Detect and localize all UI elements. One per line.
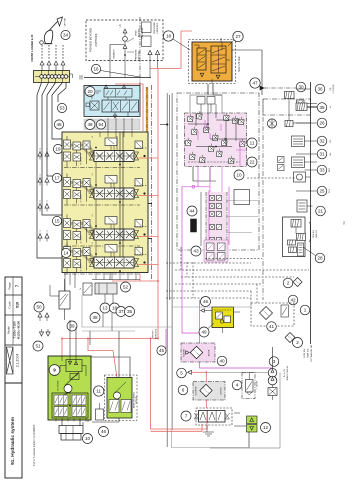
svg-text:53: 53 — [59, 106, 65, 111]
balloon 37 — [116, 307, 126, 317]
coupler block side tick — [70, 74, 73, 78]
grey spacer band — [84, 119, 140, 130]
aux couplers below — [38, 313, 42, 317]
drain stack B — [292, 157, 318, 170]
svg-text:2.1.2004: 2.1.2004 — [16, 354, 20, 367]
trailer brake valve block (blue) — [84, 86, 140, 117]
section 1 pilot box — [105, 138, 117, 151]
section 2 compensator valves — [64, 178, 91, 199]
balloon 3 — [269, 357, 279, 367]
center-dashed trunk line — [150, 85, 152, 281]
svg-text:6: 6 — [182, 388, 185, 393]
balloon 54 — [96, 120, 105, 129]
svg-text:(OPTION): (OPTION) — [94, 33, 98, 46]
verticals into loader valve — [69, 320, 71, 356]
priority valve block (orange) — [192, 42, 232, 81]
outlet box below pink — [193, 167, 216, 181]
svg-text:48: 48 — [56, 122, 62, 127]
coupler pair 2 — [47, 75, 51, 79]
balloon 45 — [157, 346, 166, 355]
svg-text:OPTION: OPTION — [136, 396, 138, 404]
balloon 48 — [54, 120, 63, 129]
svg-text:RET: RET — [329, 167, 331, 172]
svg-text:21: 21 — [318, 209, 324, 214]
dashed link to gallery — [247, 177, 296, 179]
svg-text:4: 4 — [236, 383, 239, 388]
svg-text:3F OKS/N: 3F OKS/N — [81, 263, 83, 272]
svg-text:NOK 45L: NOK 45L — [304, 348, 306, 358]
balloon 53 — [57, 103, 66, 112]
svg-text:5: 5 — [180, 371, 183, 376]
svg-text:46: 46 — [203, 299, 209, 304]
svg-text:From T–series tractor no N1820: From T–series tractor no N18207. — [32, 424, 36, 466]
svg-text:52: 52 — [123, 285, 129, 290]
section 3 compensator valves — [64, 219, 91, 240]
green block top ports — [60, 356, 86, 380]
svg-text:17: 17 — [54, 176, 60, 181]
svg-text:FRONT: FRONT — [153, 330, 155, 338]
gallery row links — [297, 88, 311, 90]
section 2 pilot box — [105, 176, 117, 189]
svg-text:41: 41 — [269, 324, 275, 329]
balloon 35b — [125, 307, 135, 317]
balloon 6 — [178, 385, 188, 395]
svg-text:FREE RET.: FREE RET. — [157, 22, 159, 33]
level gauge — [297, 200, 313, 212]
front loader valve block (green) — [48, 356, 91, 420]
loader tank — [59, 426, 83, 434]
cooler core — [296, 103, 307, 111]
pilot lines from lever to couplers — [41, 45, 43, 60]
svg-text:M120c–M150: M120c–M150 — [17, 321, 21, 340]
svg-text:3: 3 — [273, 359, 276, 364]
balloon 10 — [234, 170, 244, 180]
orange block internals — [194, 38, 230, 84]
svg-text:2: 2 — [296, 340, 299, 345]
main return filter group — [251, 303, 294, 326]
return manifold box — [283, 217, 306, 257]
balloon 52 — [121, 282, 131, 292]
component cluster mid-right — [278, 157, 285, 171]
svg-text:COOLER: COOLER — [333, 84, 335, 93]
coupler pair 4 — [61, 75, 65, 79]
drain stack A — [292, 136, 318, 147]
red line to priority valve — [150, 31, 192, 69]
manifold drain stack — [298, 243, 304, 256]
svg-text:47: 47 — [252, 81, 258, 86]
svg-text:16: 16 — [93, 67, 99, 72]
svg-text:Code: Code — [8, 301, 12, 309]
svg-text:20: 20 — [87, 89, 93, 94]
balloon 33 — [317, 165, 327, 175]
red drop to steering — [62, 339, 66, 388]
balloon 26 — [317, 118, 327, 128]
balloon 11 — [247, 138, 257, 148]
pressure line highlight (orange band) — [146, 87, 148, 273]
svg-text:38: 38 — [92, 315, 98, 320]
title cell date + registered symbol — [7, 347, 14, 374]
rear steer internals — [114, 392, 121, 399]
pink block piping — [188, 104, 247, 167]
section 2 solenoid — [135, 179, 146, 195]
balloon 2 — [283, 278, 293, 288]
balloon 48b — [85, 120, 95, 130]
brakes takeoff box — [110, 45, 124, 63]
tank wall vertical — [310, 82, 312, 344]
balloon 46b — [99, 427, 109, 437]
svg-text:44: 44 — [189, 209, 195, 214]
breather — [293, 278, 302, 287]
red bottom bus — [62, 338, 158, 340]
svg-text:42: 42 — [290, 298, 296, 303]
svg-text:PRESSURE: PRESSURE — [154, 22, 156, 34]
svg-text:2: 2 — [287, 281, 290, 286]
svg-text:49: 49 — [201, 330, 207, 335]
tank bracket — [310, 222, 311, 242]
svg-text:43: 43 — [193, 249, 199, 254]
svg-text:37: 37 — [118, 309, 124, 314]
balloon 43 — [191, 246, 201, 256]
aux valve section 1 spool — [70, 145, 139, 162]
links green blocks — [91, 357, 130, 378]
svg-text:54: 54 — [98, 122, 104, 127]
section 2 LS tap (red) — [139, 195, 159, 197]
loader spools — [52, 393, 88, 418]
pressure reducer valve — [242, 373, 255, 399]
svg-text:91. Hydraulic system: 91. Hydraulic system — [10, 417, 16, 465]
svg-text:46: 46 — [101, 429, 107, 434]
yellow block bottom ticks — [92, 273, 140, 280]
balloon 50 — [34, 302, 44, 312]
svg-text:25: 25 — [319, 189, 325, 194]
mid connector block — [95, 283, 117, 294]
section 3 solenoid — [135, 220, 146, 236]
balloon 51 — [33, 341, 43, 351]
svg-text:BIOS/B: BIOS/B — [209, 349, 211, 356]
balloon 4 — [232, 380, 242, 390]
svg-text:45: 45 — [159, 348, 165, 353]
balloon 7 — [181, 411, 191, 421]
svg-text:BRAKES: BRAKES — [113, 49, 116, 58]
power beyond inlet column — [139, 17, 141, 92]
svg-text:Page: Page — [8, 282, 12, 289]
red pilot line to trailer brake valve — [115, 84, 143, 131]
main aux valve block (yellow) — [62, 132, 148, 273]
svg-text:3F OKS/N: 3F OKS/N — [81, 194, 83, 203]
manifold line above blue block — [84, 77, 151, 79]
leader 49 — [208, 323, 214, 329]
balloon 21 — [316, 206, 326, 216]
aux valve section 3 spool — [70, 224, 139, 241]
svg-text:33: 33 — [319, 168, 325, 173]
balloon 5 — [177, 368, 187, 378]
accumulator — [96, 409, 104, 420]
pink block internals — [185, 111, 245, 164]
suspension column piping — [200, 192, 202, 246]
svg-text:10: 10 — [236, 173, 242, 178]
svg-text:BIOS/N: BIOS/N — [221, 387, 223, 394]
svg-text:POWER BEYOND: POWER BEYOND — [89, 28, 93, 52]
svg-text:DEFLOCK: DEFLOCK — [156, 328, 158, 339]
gallery connectors — [262, 99, 264, 300]
balloon 16 — [91, 64, 100, 73]
balloon 30 — [296, 82, 306, 92]
grey trunk lines — [166, 93, 168, 447]
svg-text:51: 51 — [35, 344, 41, 349]
column magenta lines — [208, 190, 210, 245]
grey link lines — [82, 326, 172, 328]
balloon 10b — [83, 434, 93, 444]
svg-text:Dr. S. 50/: Dr. S. 50/ — [284, 368, 286, 377]
balloon 40 — [217, 356, 227, 366]
svg-text:910: 910 — [16, 302, 20, 308]
power beyond dashed enclosure — [86, 20, 163, 61]
balloon 2b — [293, 338, 303, 348]
svg-text:35: 35 — [127, 309, 133, 314]
section 4 LS tap (red) — [139, 264, 159, 266]
quick coupler block — [34, 71, 70, 83]
blue block left fittings — [86, 91, 101, 107]
cooler solenoid — [285, 92, 295, 99]
svg-text:MAK 50L: MAK 50L — [307, 348, 310, 358]
svg-text:27: 27 — [235, 34, 241, 39]
balloon 13 — [100, 303, 110, 313]
svg-text:MAX 175 l/min: MAX 175 l/min — [238, 56, 241, 72]
section 4 pilot box — [105, 245, 117, 258]
red drop to trailer valve — [151, 339, 208, 430]
svg-text:FRONT LOADER & 3F: FRONT LOADER & 3F — [30, 34, 34, 61]
balloon 47 — [250, 78, 260, 88]
block top ticks — [99, 132, 101, 137]
section 2 internal piping — [64, 174, 147, 206]
section 1 compensator valves — [64, 140, 91, 161]
section 1 internal piping — [64, 136, 147, 168]
balloon 14 — [61, 248, 70, 257]
suspension valves — [210, 196, 222, 243]
svg-text:35: 35 — [319, 105, 325, 110]
balloon 18 — [163, 31, 173, 41]
vertical feed lines inside yellow block — [119, 132, 121, 257]
rear steering valve (green) — [107, 378, 132, 419]
svg-text:10: 10 — [85, 436, 91, 441]
balloon 15 — [52, 216, 61, 225]
svg-text:MAK 50L: MAK 50L — [315, 230, 318, 238]
section 1 solenoid — [135, 141, 146, 157]
svg-text:36: 36 — [317, 87, 323, 92]
suction filter (grey) — [193, 382, 225, 401]
balloon 18b — [110, 303, 120, 313]
suspension pilot block (pink, bottom) — [204, 240, 228, 262]
trunk junction dots — [157, 280, 159, 282]
svg-text:Model: Model — [7, 326, 11, 334]
lines from priority valve down — [207, 84, 209, 95]
section 4 compensator valves — [64, 247, 91, 268]
dash-dot enclosure around steering group — [177, 93, 259, 250]
svg-text:EXTRA NOK 68L: EXTRA NOK 68L — [310, 344, 313, 362]
brake couplers (green) — [247, 416, 258, 424]
dashed pilot bus — [205, 258, 262, 260]
section 4 solenoid — [135, 248, 146, 264]
top link lines — [232, 49, 262, 51]
aux valve section 4 spool — [70, 252, 139, 269]
balloon 12 — [261, 423, 271, 433]
left margin coupler pairs — [38, 152, 42, 156]
valve 7 drain — [206, 425, 208, 432]
balloon 27 — [233, 31, 243, 41]
steering priority block (pink) — [185, 113, 247, 167]
section 3 internal piping — [64, 215, 147, 247]
balloon 49 — [199, 327, 209, 337]
pump shaft coupling — [268, 388, 277, 396]
links from yellow block to lower groups — [64, 273, 66, 292]
svg-text:18: 18 — [166, 34, 172, 39]
balloon 22 — [247, 157, 257, 167]
svg-text:9: 9 — [53, 368, 56, 373]
aux relief valve group — [50, 279, 70, 320]
svg-text:1: 1 — [304, 308, 307, 313]
section 3 pilot box — [105, 217, 117, 230]
balloon 17 — [52, 173, 61, 182]
leader 28 — [303, 247, 316, 256]
suspension valve column (pink strip) — [206, 192, 227, 245]
svg-text:12: 12 — [263, 425, 269, 430]
svg-text:11: 11 — [250, 141, 255, 146]
svg-text:N OKS/B: N OKS/B — [184, 348, 186, 356]
svg-text:Tel: Tel — [342, 221, 346, 225]
svg-text:48: 48 — [87, 122, 93, 127]
svg-text:NOK 45L: NOK 45L — [313, 230, 315, 238]
balloon 28 — [315, 253, 325, 263]
balloon 38 — [90, 313, 100, 323]
magenta suspension lines — [182, 167, 210, 247]
balloon 44 — [187, 206, 197, 216]
gallery symbols — [297, 100, 318, 108]
svg-text:FREE: FREE — [136, 30, 138, 36]
balloon 25 — [317, 186, 327, 196]
svg-text:34: 34 — [63, 33, 69, 38]
balloon 36 — [315, 84, 325, 94]
green block bottom ticks — [55, 418, 57, 422]
svg-text:PRESSURE: PRESSURE — [136, 49, 138, 61]
oil cooler fan — [267, 119, 276, 128]
balloon 19 — [53, 144, 62, 153]
svg-text:7: 7 — [185, 414, 188, 419]
blue block arrows and ports — [104, 85, 107, 88]
magenta accents — [205, 120, 247, 167]
red LS tap lower — [112, 280, 158, 282]
links from yellow valve — [222, 328, 224, 334]
leader line 16 — [101, 71, 141, 78]
svg-text:26: 26 — [319, 121, 325, 126]
svg-text:1 OKS/N: 1 OKS/N — [257, 381, 259, 389]
svg-text:3F OKS/N: 3F OKS/N — [81, 156, 83, 165]
svg-text:11: 11 — [96, 389, 101, 394]
trunk junction ticks — [166, 123, 168, 125]
balloon 1 — [300, 305, 310, 315]
aux valve section 2 spool — [70, 183, 139, 200]
breather filter low — [285, 333, 295, 343]
filler breather — [294, 172, 306, 182]
coupler pair 1 — [40, 75, 44, 79]
title block strip — [5, 277, 22, 478]
steering orbital unit — [190, 95, 222, 114]
front axle filter (pink) — [181, 343, 215, 362]
balloon 31 — [317, 149, 327, 159]
svg-text:OPTION: OPTION — [65, 17, 67, 26]
svg-text:19: 19 — [55, 147, 61, 152]
svg-text:BVA13 15M9 46: BVA13 15M9 46 — [286, 365, 289, 380]
svg-text:3F OKS/N: 3F OKS/N — [81, 235, 83, 244]
balloon 46 — [201, 297, 211, 307]
svg-text:US OKS/B: US OKS/B — [58, 380, 60, 391]
balloon 34 — [61, 30, 70, 39]
svg-text:28: 28 — [317, 256, 323, 261]
svg-text:13: 13 — [102, 306, 108, 311]
control lever (joystick) icon — [44, 30, 52, 44]
svg-text:50: 50 — [36, 305, 42, 310]
svg-text:LS: LS — [119, 24, 122, 27]
brake pilot valve (bright yellow) — [212, 307, 234, 328]
grey link steering bus — [172, 306, 251, 308]
svg-text:22: 22 — [249, 160, 255, 165]
swivel joint — [64, 385, 72, 393]
balloon 41 — [267, 322, 277, 332]
svg-text:40: 40 — [219, 359, 225, 364]
section 3 LS tap (red) — [139, 236, 159, 238]
balloon 32 — [317, 136, 327, 146]
svg-text:31: 31 — [319, 152, 325, 157]
leader 18 — [173, 39, 190, 50]
blue block pilot valve — [90, 101, 99, 110]
solenoid block — [191, 219, 197, 232]
balloon 11b — [94, 386, 104, 396]
coupler pair 3 — [54, 75, 58, 79]
balloon 9 — [49, 365, 60, 376]
pilot valve small — [83, 283, 92, 295]
red LS line main vertical — [157, 69, 159, 339]
lines from couplers down left margin — [37, 83, 62, 259]
svg-text:14: 14 — [63, 251, 69, 256]
accumulator box right of column — [234, 190, 250, 205]
balloon 35 — [317, 103, 327, 113]
section 1 LS tap (red) — [139, 157, 159, 159]
bottom frame lines — [234, 413, 247, 426]
svg-text:32: 32 — [319, 139, 325, 144]
lines through band — [107, 118, 109, 132]
svg-text:15: 15 — [54, 219, 60, 224]
balloon 39 — [67, 321, 77, 331]
leader 27 — [228, 40, 234, 46]
column grey taps — [227, 200, 258, 202]
blue block valves — [102, 89, 139, 113]
balloon 42 — [288, 295, 298, 305]
balloon 20 — [85, 87, 95, 97]
svg-text:SUOKS/N: SUOKS/N — [196, 386, 198, 396]
section 4 internal piping — [64, 243, 147, 275]
